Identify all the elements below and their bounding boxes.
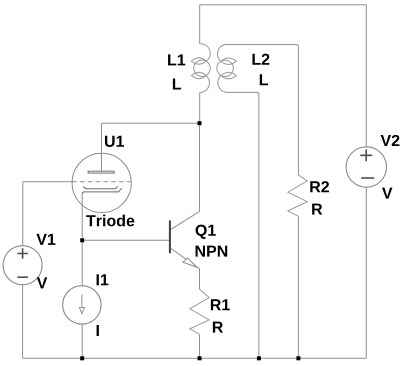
value label R of R1 [213, 322, 223, 333]
wire U1 cathode lead [81, 194, 83, 240]
wire U1 anode lead [101, 123, 103, 171]
value label V of V2 [382, 188, 392, 199]
junction dot bottom rail at R2 branch [296, 356, 300, 360]
junction dot bottom rail at L2 branch [257, 356, 261, 360]
label U1 [105, 136, 124, 147]
wire I1 bottom lead [81, 324, 83, 358]
inductor L1 [191, 44, 210, 93]
wire I1 top lead [81, 240, 83, 286]
label R2 [310, 181, 329, 192]
wire L2 top to R2 [227, 45, 298, 175]
value label Triode [86, 215, 134, 227]
value label V of V1 [37, 277, 47, 288]
value label NPN [196, 246, 228, 257]
wire L1 top lead [199, 5, 201, 44]
voltage source V1 [3, 246, 42, 285]
wire Q1 collector vertical [199, 123, 201, 211]
wire R2 bottom lead [297, 216, 299, 358]
wire V2 bottom lead [365, 187, 367, 358]
wire L1 bottom lead [199, 93, 201, 124]
vacuum tube U1 [72, 153, 131, 212]
wire Q1 emitter vertical [199, 269, 201, 289]
wire top rail [200, 4, 367, 6]
wire U1 anode horizontal [102, 122, 200, 124]
wire V2 top lead [365, 5, 367, 147]
label L2 [252, 54, 269, 65]
resistor R2 [288, 175, 307, 216]
label V2 [381, 135, 400, 146]
label R1 [211, 299, 230, 310]
junction dot bottom rail at R1 [198, 356, 202, 360]
junction dot cathode/base node [80, 238, 84, 242]
resistor R1 [190, 289, 209, 334]
wire bottom rail [23, 357, 367, 359]
value label L of L2 [260, 74, 268, 85]
label I1 [97, 274, 109, 285]
junction dot bottom rail at I1 [80, 356, 84, 360]
junction dot anode/collector node [198, 121, 202, 125]
label V1 [36, 234, 55, 245]
wire R1 bottom lead [199, 334, 201, 358]
transistor Q1 [170, 211, 200, 268]
value label R of R2 [312, 204, 322, 215]
voltage source V2 [346, 147, 386, 187]
current source I1 [63, 286, 101, 324]
wire L2 bottom branch [227, 92, 259, 358]
label L1 [168, 54, 185, 65]
wire V1 bottom lead [22, 285, 24, 359]
wire V1 top lead [22, 182, 24, 246]
label Q1 [196, 225, 216, 239]
value label L of L1 [173, 78, 181, 89]
value label I of I1 [97, 325, 99, 336]
wire U1 grid horizontal [23, 181, 73, 183]
inductor L2 [217, 44, 237, 92]
wire Q1 base horizontal [82, 239, 169, 241]
